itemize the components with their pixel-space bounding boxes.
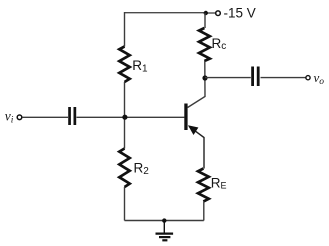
svg-text:Rc: Rc bbox=[212, 36, 227, 52]
wire output left bbox=[205, 77, 251, 79]
ground bbox=[156, 221, 174, 241]
node output junction dot bbox=[202, 75, 207, 80]
svg-text:vo: vo bbox=[314, 70, 325, 87]
capacitor input coupling bbox=[68, 107, 76, 125]
wire left rail middle bbox=[124, 82, 126, 149]
wire collector rail bbox=[204, 13, 206, 28]
svg-text:-15 V: -15 V bbox=[224, 6, 256, 21]
svg-text:RE: RE bbox=[211, 176, 227, 191]
terminal vi open circle bbox=[17, 115, 22, 120]
resistor RC bbox=[199, 28, 210, 61]
wire input left bbox=[22, 116, 68, 118]
wire left rail upper bbox=[124, 12, 126, 47]
wire -15V stub bbox=[205, 12, 215, 14]
transistor Q1 base bar bbox=[184, 104, 187, 131]
capacitor output coupling bbox=[251, 67, 259, 87]
node ground junction dot bbox=[162, 218, 166, 222]
terminal vo open circle bbox=[306, 76, 310, 80]
wire top rail bbox=[125, 12, 206, 14]
node base-divider junction dot bbox=[122, 115, 127, 120]
svg-text:vi: vi bbox=[5, 108, 14, 125]
transistor Q1 emitter arrowhead (PNP, points into base) bbox=[188, 125, 198, 135]
resistor R2 bbox=[119, 149, 129, 187]
resistor RE bbox=[198, 169, 209, 202]
wire left rail lower bbox=[124, 187, 126, 221]
terminal -15V open circle bbox=[216, 11, 221, 16]
wire emitter rail lower bbox=[203, 202, 205, 221]
transistor Q1 emitter lead with arrow bbox=[189, 126, 204, 168]
resistor R1 bbox=[119, 47, 129, 83]
svg-text:R2: R2 bbox=[134, 161, 150, 178]
wire output right bbox=[261, 77, 306, 79]
node top junction dot bbox=[204, 11, 208, 15]
wire input right to base bbox=[77, 116, 185, 118]
wire bottom rail bbox=[125, 220, 204, 222]
svg-text:R1: R1 bbox=[132, 58, 148, 75]
wire collector rail lower bbox=[188, 61, 205, 108]
